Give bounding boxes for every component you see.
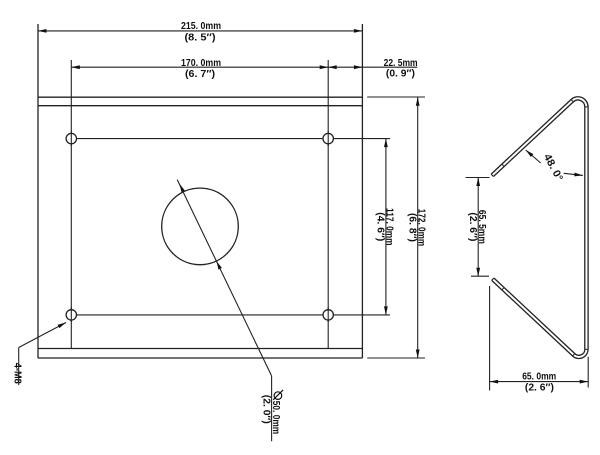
dimension 48.0 degrees bbox=[526, 150, 583, 175]
leader 4-M8 bbox=[19, 323, 66, 386]
hole row line bottom bbox=[71, 314, 390, 316]
hole top-right bbox=[323, 133, 333, 143]
svg-text:(6. 8″): (6. 8″) bbox=[406, 213, 418, 242]
svg-text:(6. 7″): (6. 7″) bbox=[185, 68, 215, 80]
dimension 65.5mm (vertical, side view) bbox=[466, 178, 490, 277]
plate outline front view bbox=[38, 24, 362, 358]
arm end caps bbox=[491, 174, 494, 280]
hole bottom-right bbox=[323, 310, 333, 320]
hole bottom-left bbox=[66, 310, 76, 320]
dimension 215.0mm bbox=[38, 30, 362, 32]
hole top-left bbox=[66, 133, 76, 143]
hole column line right bbox=[327, 60, 329, 349]
svg-text:(4. 6″): (4. 6″) bbox=[375, 212, 387, 241]
hole row line top bbox=[71, 138, 390, 140]
dimension 65.0mm (horizontal, side view) bbox=[490, 286, 589, 391]
svg-text:(2. 6″): (2. 6″) bbox=[467, 212, 479, 241]
svg-text:(2. 0″): (2. 0″) bbox=[260, 395, 272, 424]
big circle 50mm bbox=[162, 188, 239, 265]
bend tick marks bbox=[502, 99, 589, 356]
leader diameter 50mm bbox=[177, 180, 271, 442]
dimension 172.0mm (vertical) bbox=[367, 97, 425, 358]
dimension 117.0mm (vertical) bbox=[385, 139, 387, 315]
svg-text:4-M8: 4-M8 bbox=[12, 363, 24, 384]
hole column line left bbox=[70, 60, 72, 349]
svg-text:(8. 5″): (8. 5″) bbox=[185, 32, 216, 44]
svg-text:215. 0mm: 215. 0mm bbox=[181, 20, 221, 32]
svg-text:(2. 6″): (2. 6″) bbox=[525, 382, 554, 394]
dimension 22.5mm bbox=[328, 65, 362, 69]
dimension 170.0mm bbox=[71, 66, 417, 68]
svg-text:65. 0mm: 65. 0mm bbox=[522, 370, 556, 382]
side view profile bbox=[492, 98, 586, 356]
svg-text:(0. 9″): (0. 9″) bbox=[386, 68, 415, 80]
hole centerline segments bbox=[71, 131, 328, 322]
